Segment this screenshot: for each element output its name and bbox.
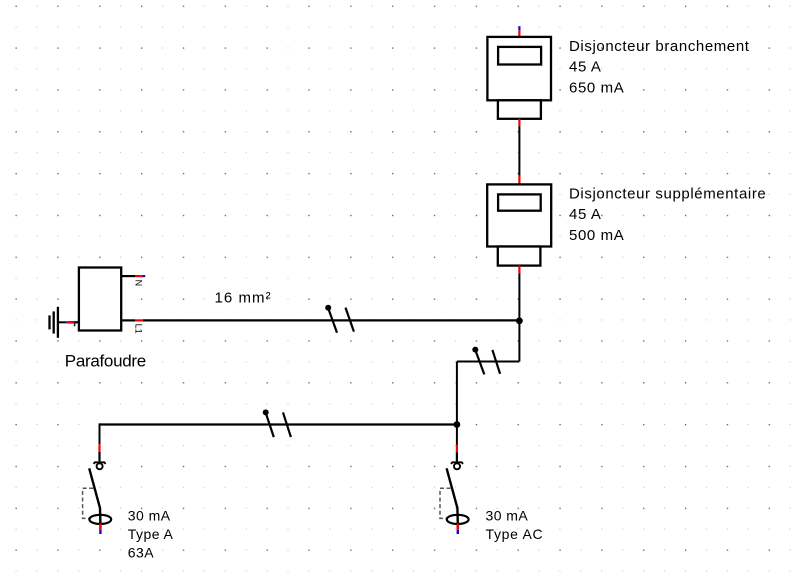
ground symbol	[50, 307, 58, 338]
label S2	[486, 507, 544, 541]
wire bottom bus down-left leg	[99, 423, 101, 444]
svg-text:63A: 63A	[128, 544, 154, 560]
wire jog horizontal	[457, 361, 520, 363]
conductor marker M3 dot	[263, 409, 269, 415]
circuit breaker Q1 (Disjoncteur branchement) outer body	[487, 37, 551, 100]
RCD S1 lead-in	[98, 452, 100, 462]
label S1	[128, 508, 174, 561]
svg-text:30 mA: 30 mA	[486, 507, 529, 523]
svg-text:30 mA: 30 mA	[128, 508, 171, 524]
parafoudre terminal N stub red	[135, 275, 142, 277]
parafoudre terminal N blue tip	[142, 275, 145, 277]
breaker Q1 window	[498, 47, 541, 65]
conductor marker M2 dot	[472, 347, 478, 353]
RCD S2 fixed contact bar	[451, 462, 463, 464]
parafoudre terminal L1 stub black	[121, 319, 135, 321]
wire Q1 to Q2	[518, 126, 520, 175]
svg-text:Parafoudre: Parafoudre	[65, 351, 146, 370]
svg-text:Disjoncteur branchement: Disjoncteur branchement	[569, 38, 750, 55]
wire Q2 down to node A	[518, 274, 520, 321]
breaker Q1 bottom tab	[498, 100, 541, 119]
conductor marker M3 slash 1	[266, 413, 274, 437]
wire jog down to node B	[456, 362, 458, 425]
svg-text:Disjoncteur supplémentaire: Disjoncteur supplémentaire	[569, 185, 766, 202]
conductor marker M1 dot	[325, 305, 331, 311]
conductor marker M1 slash 1	[328, 309, 337, 333]
svg-text:Type AC: Type AC	[486, 526, 544, 542]
breaker Q2 bottom tab	[498, 247, 541, 266]
terminal red stub above breaker Q1	[518, 30, 520, 38]
terminal red stub below Q1 tab	[518, 119, 520, 126]
RCD S2 terminal red	[456, 445, 458, 453]
ground wire purple tick	[65, 321, 68, 323]
wire 16mm2 L1 to node A	[143, 319, 519, 321]
RCD S2 dashed actuator box	[440, 488, 451, 518]
RCD S1 toroid ellipse	[89, 515, 111, 524]
RCD S1 terminal red	[98, 444, 100, 452]
svg-text:Type A: Type A	[128, 526, 174, 542]
RCD S2 lead-in	[456, 452, 458, 461]
conductor marker M1 slash 2	[346, 308, 354, 332]
svg-text:16 mm²: 16 mm²	[215, 290, 272, 307]
wire bottom bus	[100, 423, 457, 425]
label Q1	[569, 38, 750, 97]
svg-text:650 mA: 650 mA	[569, 80, 624, 97]
RCD S2 bottom red stub	[456, 524, 459, 530]
node A junction dot	[516, 317, 523, 324]
ground terminal inner tick	[74, 321, 79, 323]
wire node B down	[456, 425, 458, 445]
svg-text:N: N	[133, 280, 143, 287]
conductor marker M2 slash 2	[492, 350, 500, 374]
svg-text:45 A: 45 A	[569, 206, 601, 223]
terminal red stub above Q2	[518, 176, 520, 185]
wire ground to parafoudre	[58, 321, 65, 323]
parafoudre terminal N stub black	[121, 275, 135, 277]
terminal red stub below Q2 tab	[518, 266, 520, 274]
node B junction dot	[454, 421, 461, 428]
parafoudre terminal L1 red	[135, 319, 143, 321]
conductor marker M3 slash 2	[283, 412, 291, 437]
RCD S1 terminal circle	[97, 463, 103, 469]
RCD S2 bottom blue tip	[457, 530, 459, 534]
parafoudre F1 body	[79, 268, 121, 331]
RCD S1 dashed actuator box	[83, 488, 94, 518]
svg-text:500 mA: 500 mA	[569, 227, 624, 244]
circuit breaker Q2 (Disjoncteur supplémentaire) outer body	[487, 184, 551, 246]
svg-text:L1: L1	[133, 324, 143, 334]
ground terminal red stub	[68, 321, 75, 324]
breaker Q2 window	[498, 194, 541, 210]
RCD S1 bottom blue tip	[99, 530, 101, 534]
conductor marker M2 slash 1	[476, 351, 485, 375]
RCD S1 blade	[89, 468, 100, 523]
terminal blue tip above breaker Q1	[518, 26, 520, 30]
RCD S2 toroid ellipse	[447, 515, 469, 524]
RCD S1 fixed contact bar	[94, 462, 106, 464]
RCD S1 bottom red stub	[99, 524, 102, 530]
label Q2	[569, 185, 766, 244]
RCD S2 terminal circle	[454, 463, 460, 469]
RCD S2 blade	[447, 468, 458, 523]
svg-text:45 A: 45 A	[569, 59, 601, 76]
wire node A down	[518, 321, 520, 362]
